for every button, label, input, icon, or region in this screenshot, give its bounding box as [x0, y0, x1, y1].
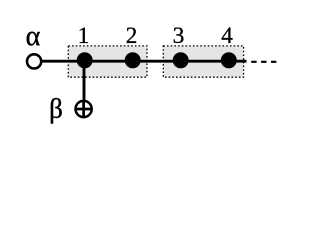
label 3	[173, 23, 185, 49]
box nodes 3-4	[163, 46, 243, 77]
node 4	[221, 52, 237, 68]
node 3	[173, 52, 189, 68]
wire main horizontal	[40, 60, 247, 63]
wire dashed continuation	[251, 61, 276, 63]
label beta	[49, 94, 63, 124]
label 4	[221, 23, 233, 49]
node 2	[125, 52, 141, 68]
wire vertical to beta node	[83, 60, 86, 101]
label alpha	[26, 21, 41, 52]
label 1	[78, 23, 90, 49]
node alpha (open circle)	[27, 54, 41, 68]
svg-text:4: 4	[221, 23, 233, 49]
svg-text:3: 3	[173, 23, 185, 49]
svg-text:2: 2	[126, 23, 138, 49]
svg-text:1: 1	[78, 23, 90, 49]
svg-text:α: α	[26, 21, 41, 52]
label 2	[126, 23, 138, 49]
node beta (circled plus)	[76, 101, 92, 117]
svg-text:β: β	[49, 94, 63, 124]
node 1	[77, 52, 93, 68]
box nodes 1-2	[68, 46, 147, 77]
